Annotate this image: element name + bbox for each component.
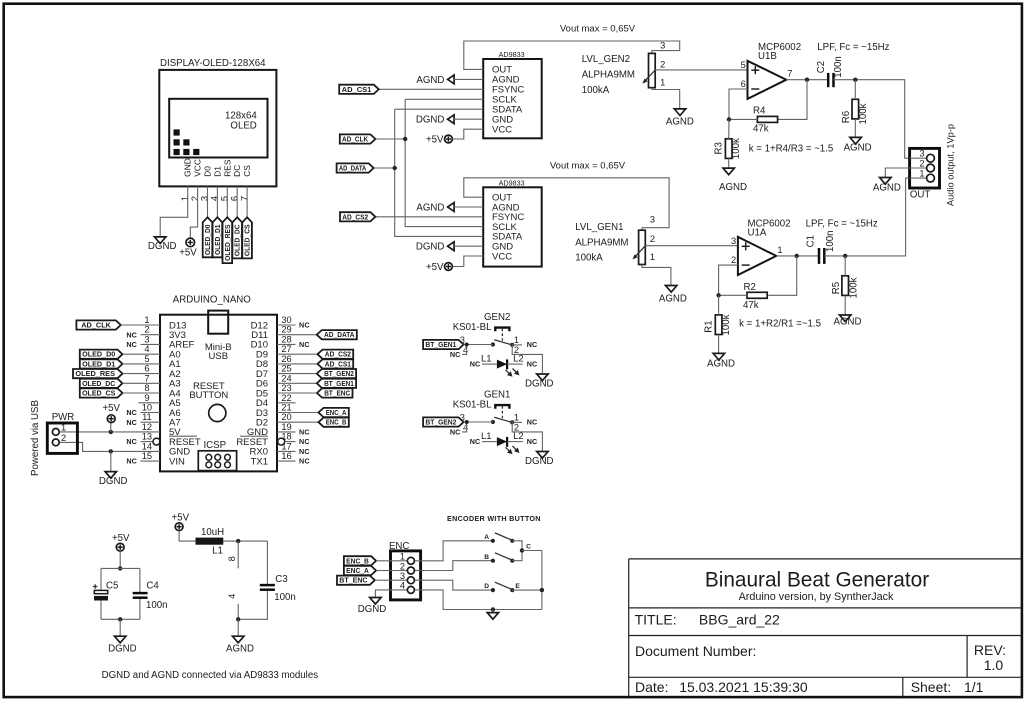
svg-text:2: 2: [400, 561, 405, 571]
svg-text:OUT: OUT: [910, 189, 931, 200]
wire cap bottom rail: [101, 617, 140, 621]
wire R4 left to node: [727, 117, 758, 121]
svg-text:AD_CS2: AD_CS2: [325, 350, 351, 359]
svg-text:ENC_B: ENC_B: [346, 556, 369, 565]
wire pot1 pin1 to AGND: [642, 265, 671, 286]
arduino pin13 NC with bubble: [126, 437, 160, 446]
wire ENC pin2 to switch B: [421, 561, 493, 571]
arduino left pin names: [169, 320, 201, 467]
svg-text:3: 3: [919, 149, 924, 159]
svg-text:U1B: U1B: [758, 51, 777, 62]
svg-text:LVL_GEN2: LVL_GEN2: [582, 54, 630, 65]
arduino pin18 NC with bubble: [278, 437, 310, 446]
svg-text:Powered via USB: Powered via USB: [30, 400, 41, 476]
arduino right pin numbers 30-16: [281, 315, 291, 461]
svg-text:R5: R5: [831, 282, 842, 294]
resistor R2 labels: [743, 282, 759, 311]
power +5V at AD2: [426, 262, 452, 273]
svg-text:PWR: PWR: [52, 412, 75, 423]
connector ENC outline: [391, 551, 421, 600]
svg-text:26: 26: [281, 354, 291, 364]
resistor R3 body: [725, 139, 732, 159]
svg-text:15.03.2021 15:39:30: 15.03.2021 15:39:30: [679, 679, 808, 695]
button GEN1 pin2 wire to DGND: [512, 422, 542, 451]
net flag AD_CS2 left: [340, 212, 375, 221]
wire node C to right rail: [522, 551, 542, 610]
svg-text:NC: NC: [527, 340, 538, 349]
svg-text:BT_GEN1: BT_GEN1: [425, 340, 456, 349]
net flag AD_DATA left: [337, 163, 374, 172]
title block Date row: [635, 679, 808, 695]
wire R2 left to node: [716, 293, 747, 297]
svg-text:BT_GEN2: BT_GEN2: [324, 369, 354, 378]
arduino pin3 NC: [126, 340, 160, 349]
wire display pin6: [236, 186, 238, 217]
svg-text:DGND and AGND connected via AD: DGND and AGND connected via AD9833 modul…: [102, 670, 319, 681]
arduino pin10 NC: [126, 408, 160, 417]
potentiometer LVL_GEN2 body: [649, 53, 656, 87]
svg-text:100n: 100n: [833, 56, 844, 78]
svg-text:1/1: 1/1: [964, 679, 984, 695]
arduino pin22 stub wire: [277, 402, 296, 404]
net flag AD_CLK left: [340, 134, 376, 143]
module U_AD1 name label: [499, 50, 525, 59]
svg-text:ENC_A: ENC_A: [346, 566, 369, 575]
net flag OLED_DC at arduino pin7: [80, 379, 160, 388]
ground DGND under PWR node: [99, 472, 128, 488]
connector OUT audio jack outline: [910, 148, 940, 188]
button GEN1 KS01-BL label: [453, 400, 492, 411]
net flag OLED_D0 at arduino pin4: [80, 350, 160, 359]
svg-text:ALPHA9MM: ALPHA9MM: [575, 238, 628, 249]
svg-text:100n: 100n: [146, 600, 168, 611]
svg-text:Sheet:: Sheet:: [911, 679, 951, 695]
wire C4 bottom leg: [139, 599, 141, 619]
ground at encoder common: [487, 613, 498, 620]
svg-text:TX1: TX1: [251, 456, 268, 467]
svg-text:AD_DATA: AD_DATA: [324, 330, 355, 339]
svg-text:1: 1: [61, 423, 66, 433]
svg-text:AGND: AGND: [873, 182, 901, 193]
svg-text:2: 2: [919, 158, 924, 168]
ground AGND at jack pin2: [873, 178, 901, 194]
net flag BT_GEN1: [423, 340, 493, 349]
label Audio output 1Vp-p: [946, 124, 956, 206]
svg-text:DGND: DGND: [525, 456, 554, 467]
svg-text:R2: R2: [744, 282, 756, 293]
wire display pin1 to DGND: [160, 186, 188, 237]
label ENCODER WITH BUTTON: [447, 514, 541, 523]
svg-text:Audio output, 1Vp-p: Audio output, 1Vp-p: [946, 124, 956, 206]
wire pot2 pin1 to AGND: [652, 88, 680, 109]
title block TITLE row: [635, 611, 780, 627]
net label OLED_D0: [203, 217, 213, 257]
net flag AD_DATA at arduino pin29: [277, 330, 357, 339]
svg-text:OLED_RES: OLED_RES: [223, 224, 232, 260]
wire C5 bottom leg: [100, 601, 102, 620]
svg-text:1: 1: [180, 196, 190, 201]
resistor R4 body: [757, 116, 777, 122]
svg-text:25: 25: [281, 364, 291, 374]
svg-text:OLED_DC: OLED_DC: [82, 379, 116, 388]
title block frame: [629, 559, 1021, 696]
svg-text:DGND: DGND: [416, 115, 445, 126]
resistor R6 body: [852, 99, 859, 119]
resistor R3 labels: [714, 138, 742, 159]
pot LVL_GEN1 wiper arrow: [632, 246, 645, 260]
ground AGND under pot2: [666, 109, 694, 127]
capacitor C4 labels: [146, 581, 168, 612]
wire AD_DATA net vertical to SDATA pins: [374, 109, 484, 236]
pot LVL_GEN1 pin2 number: [650, 234, 655, 244]
encoder switch A: [484, 533, 514, 543]
wire C5 top leg: [100, 568, 102, 590]
svg-text:1: 1: [919, 169, 924, 179]
op-amp U1B pin5 number: [741, 60, 746, 70]
inductor L1 body: [196, 538, 224, 545]
resistor R6 labels: [841, 103, 869, 124]
svg-text:ENC: ENC: [389, 541, 409, 552]
net label OLED_D1: [213, 217, 223, 257]
wire node to R5: [844, 256, 846, 276]
button GEN2 contacts and lever: [491, 340, 515, 347]
svg-text:16: 16: [281, 451, 291, 461]
wire pot2 wiper to opamp U1B pin5: [655, 69, 747, 71]
button GEN2 pin4 NC: [450, 350, 461, 359]
wire AD1 VCC to +5V: [452, 129, 483, 139]
svg-text:4: 4: [400, 581, 405, 591]
svg-text:10uH: 10uH: [201, 527, 224, 538]
svg-text:AGND: AGND: [666, 116, 694, 127]
capacitor C2 plates: [828, 73, 833, 87]
resistor R4 labels: [753, 106, 769, 135]
svg-text:+5V: +5V: [172, 512, 190, 523]
pot LVL_GEN1 pin3 number: [650, 215, 655, 225]
svg-text:5: 5: [220, 196, 230, 201]
svg-text:100k: 100k: [849, 277, 860, 298]
net flag AD_CS2 at arduino pin27: [277, 350, 353, 359]
wire AD1 FSYNC: [379, 88, 483, 90]
op-amp U1B labels: [758, 42, 801, 62]
svg-text:NC: NC: [126, 437, 137, 446]
svg-text:AGND: AGND: [416, 202, 444, 213]
wire cap top rail: [101, 567, 140, 569]
svg-text:LVL_GEN1: LVL_GEN1: [575, 222, 623, 233]
LED GEN2 pin labels: [481, 354, 524, 365]
pot LVL_GEN1 labels: [575, 222, 628, 263]
net flag OLED_D1 at arduino pin5: [80, 359, 160, 368]
svg-text:+5V: +5V: [179, 247, 197, 258]
svg-text:BT_ENC: BT_ENC: [324, 389, 351, 398]
button GEN2 pin2 wire to DGND: [512, 345, 542, 374]
label Vout max 1: [560, 24, 636, 35]
arduino left pin numbers 1-15: [142, 315, 152, 461]
resistor R1 body: [715, 315, 722, 335]
title block Sheet: [911, 679, 984, 695]
svg-text:R6: R6: [841, 111, 852, 123]
pot LVL_GEN2 labels: [582, 54, 635, 96]
svg-text:L1: L1: [212, 545, 223, 556]
wire C1 to audio jack pin1: [824, 178, 909, 258]
op-amp U1A pin2 number: [731, 255, 736, 265]
connector ENC pins 1-4: [391, 552, 421, 594]
svg-text:OLED_CS: OLED_CS: [243, 224, 252, 256]
net flag BT_ENC at ENC pin3: [337, 576, 391, 585]
net flag AD_CS1 left: [339, 85, 379, 94]
svg-text:BT_GEN1: BT_GEN1: [324, 379, 354, 388]
pot LVL_GEN2 wiper arrow: [642, 70, 655, 84]
label gain formula U1B: [749, 144, 834, 155]
svg-text:C2: C2: [816, 61, 827, 73]
svg-text:47k: 47k: [753, 124, 769, 135]
svg-text:1: 1: [777, 245, 782, 255]
ground DGND under display: [148, 237, 177, 252]
flag DGND at AD2: [416, 242, 483, 253]
capacitor C1 plates: [819, 248, 824, 264]
button GEN2 pin1 NC wire: [512, 340, 537, 349]
svg-text:100n: 100n: [274, 592, 296, 603]
svg-text:5: 5: [144, 354, 149, 364]
title block main title: [705, 568, 929, 591]
svg-text:5: 5: [741, 60, 746, 70]
encoder switch D E: [484, 582, 520, 592]
svg-text:VIN: VIN: [169, 456, 185, 467]
net flag OLED_RES at arduino pin6: [73, 369, 160, 378]
ground AGND under R5: [834, 315, 862, 327]
svg-text:8: 8: [144, 383, 149, 393]
svg-text:C5: C5: [106, 581, 118, 592]
ground AGND under C3: [226, 636, 254, 654]
svg-text:12: 12: [142, 422, 152, 432]
arduino pin15 NC: [126, 457, 160, 466]
ground DGND under GEN1: [525, 452, 554, 467]
net-tie pin 4 stub: [227, 594, 238, 620]
svg-text:1: 1: [514, 412, 519, 422]
flag AGND at AD1: [416, 75, 483, 86]
wire C3 top leg: [266, 541, 268, 584]
svg-text:DC: DC: [232, 165, 242, 177]
LED GEN2 NC labels: [470, 360, 538, 369]
svg-text:C4: C4: [146, 581, 159, 592]
capacitor C1 labels: [805, 230, 836, 252]
svg-text:NC: NC: [299, 437, 310, 446]
button GEN2 cap bracket: [495, 328, 509, 343]
svg-text:DISPLAY-OLED-128X64: DISPLAY-OLED-128X64: [160, 58, 266, 69]
button GEN2 pin numbers: [460, 335, 519, 355]
svg-text:BT_GEN2: BT_GEN2: [425, 418, 456, 427]
ground AGND under pot1: [659, 286, 687, 305]
svg-text:OLED_RES: OLED_RES: [75, 369, 115, 378]
potentiometer LVL_GEN1 body: [639, 230, 646, 264]
wire U1A pin2 feedback: [719, 265, 738, 295]
arduino pin16 NC: [277, 457, 310, 466]
net label OLED_DC: [232, 217, 242, 258]
resistor R2 body: [747, 292, 767, 298]
op-amp U1A labels: [748, 219, 791, 239]
svg-text:100k: 100k: [731, 138, 742, 159]
display pin name labels GND VCC D0 D1 RES DC CS: [183, 158, 252, 177]
capacitor C3 plates: [260, 585, 275, 590]
svg-text:C3: C3: [275, 574, 287, 585]
svg-text:R3: R3: [714, 142, 725, 154]
connector PWR outline: [47, 423, 77, 453]
wire jack pin2 to AGND: [885, 168, 909, 178]
svg-text:L1: L1: [481, 354, 492, 365]
module ARDUINO_NANO outline: [160, 315, 277, 472]
svg-text:9: 9: [144, 393, 149, 403]
wire C2 to audio jack pin3: [834, 78, 910, 159]
arduino pin19 NC: [277, 428, 310, 437]
svg-text:L2: L2: [513, 431, 524, 442]
svg-text:AD_CLK: AD_CLK: [81, 321, 111, 330]
svg-text:14: 14: [142, 441, 152, 451]
net flag ENC_A at arduino pin21: [277, 408, 349, 417]
wire pot1 wiper to opamp U1A pin3: [645, 245, 738, 247]
svg-text:Document Number:: Document Number:: [635, 643, 756, 659]
connector OUT pins 3 2 1: [910, 149, 935, 182]
ground AGND under R6: [844, 137, 872, 153]
net flag ENC_B at ENC pin1: [344, 556, 391, 565]
svg-text:BUTTON: BUTTON: [189, 390, 228, 401]
module U_AD2 name label: [499, 179, 525, 188]
button GEN1 pin1 NC wire: [512, 418, 537, 427]
arduino pin2 NC: [126, 330, 160, 339]
wire U1B pin6 feedback: [729, 89, 748, 119]
svg-text:k = 1+R2/R1 =~1.5: k = 1+R2/R1 =~1.5: [739, 318, 821, 329]
label gain formula U1A: [739, 318, 821, 329]
op-amp U1A pin1 number: [777, 245, 782, 255]
net flag BT_GEN2 at arduino pin25: [277, 369, 356, 378]
wire switch B to node C: [512, 548, 524, 560]
svg-text:2: 2: [660, 59, 665, 69]
svg-text:NC: NC: [299, 321, 310, 330]
svg-text:1: 1: [650, 252, 655, 262]
display pixel squares: [174, 129, 200, 155]
module ARDUINO_NANO title: [173, 295, 252, 306]
svg-text:7: 7: [144, 373, 149, 383]
svg-text:R1: R1: [703, 320, 714, 332]
svg-text:3: 3: [400, 571, 405, 581]
ground DGND at ENC: [358, 598, 387, 615]
svg-text:B: B: [484, 554, 489, 561]
arduino icsp label: [203, 440, 226, 451]
svg-text:E: E: [515, 583, 520, 590]
LED GEN2 backlight: [482, 359, 523, 369]
svg-text:D1: D1: [212, 166, 222, 177]
svg-text:NC: NC: [470, 437, 481, 446]
pot LVL_GEN1 pin1 number: [650, 252, 655, 262]
arduino pin9 stub wire: [138, 402, 160, 404]
wire AD2 FSYNC: [375, 216, 483, 218]
net flag AD_CLK at arduino pin1: [76, 320, 160, 329]
capacitor C2 labels: [816, 56, 844, 78]
svg-text:GND: GND: [183, 158, 193, 177]
op-amp U1B pin7 number: [787, 69, 792, 79]
svg-text:100kA: 100kA: [582, 85, 610, 96]
capacitor C5 label: [106, 581, 118, 592]
svg-text:100kA: 100kA: [575, 252, 603, 263]
label LPF U1B: [817, 42, 889, 53]
svg-text:D0: D0: [203, 166, 213, 177]
svg-text:REV:: REV:: [974, 642, 1006, 658]
svg-text:OLED_D1: OLED_D1: [82, 359, 115, 368]
display title label: [160, 58, 266, 69]
module U_AD1 AD9833 outline: [483, 59, 542, 138]
wire +5V to cap rail: [118, 551, 122, 571]
svg-text:3: 3: [144, 334, 149, 344]
svg-text:11: 11: [142, 412, 152, 422]
LED GEN1 emission arrows: [506, 446, 520, 454]
svg-text:2: 2: [190, 196, 200, 201]
svg-text:KS01-BL: KS01-BL: [453, 322, 492, 333]
title block REV: [974, 642, 1006, 673]
power +5V above PWR: [102, 403, 120, 422]
capacitor C5 polarized plates: [93, 584, 108, 600]
net flag BT_GEN2: [423, 417, 493, 426]
svg-text:2: 2: [144, 325, 149, 335]
svg-text:NC: NC: [527, 360, 538, 369]
svg-text:15: 15: [142, 451, 152, 461]
wire arduino GND pin14 to PWR pin2 and DGND: [59, 442, 160, 471]
svg-text:NC: NC: [450, 428, 461, 437]
svg-text:OLED_D1: OLED_D1: [213, 225, 222, 256]
svg-text:KS01-BL: KS01-BL: [453, 400, 492, 411]
svg-text:2: 2: [650, 234, 655, 244]
svg-text:RES: RES: [222, 159, 232, 177]
svg-text:U1A: U1A: [748, 228, 767, 239]
connector ENC label: [389, 541, 409, 552]
arduino right pin names: [236, 320, 268, 467]
wire display pin3: [207, 186, 209, 217]
display screen inner box: [169, 99, 267, 158]
op-amp U1B pin6 number: [741, 79, 746, 89]
LED GEN1 pin labels: [481, 431, 524, 442]
svg-text:2: 2: [61, 433, 66, 443]
svg-text:ENC_A: ENC_A: [326, 408, 347, 417]
svg-text:NC: NC: [299, 340, 310, 349]
capacitor C3 labels: [274, 574, 296, 603]
svg-text:6: 6: [229, 196, 239, 201]
svg-text:4: 4: [210, 196, 220, 201]
svg-text:D: D: [484, 583, 489, 590]
svg-text:AD_CLK: AD_CLK: [342, 135, 369, 144]
svg-text:L2: L2: [513, 354, 524, 365]
svg-text:AGND: AGND: [226, 644, 254, 655]
svg-text:L1: L1: [481, 431, 492, 442]
svg-text:AD9833: AD9833: [499, 179, 525, 188]
svg-text:AGND: AGND: [707, 358, 735, 369]
flag DGND at AD1: [416, 115, 483, 126]
svg-text:BBG_ard_22: BBG_ard_22: [699, 611, 780, 627]
LED GEN1 NC labels: [470, 437, 538, 446]
wire AD2 OUT to LVL_GEN1 pin3 (Vout rail 2): [464, 178, 669, 230]
svg-text:30: 30: [281, 315, 291, 325]
svg-text:ARDUINO_NANO: ARDUINO_NANO: [173, 295, 252, 306]
svg-text:NC: NC: [527, 418, 538, 427]
svg-text:20: 20: [281, 412, 291, 422]
wire U1B output to C2: [786, 78, 828, 82]
svg-text:AD_CS2: AD_CS2: [342, 212, 368, 221]
svg-text:C: C: [526, 543, 531, 550]
svg-text:CS: CS: [242, 165, 252, 177]
svg-text:29: 29: [281, 325, 291, 335]
svg-text:24: 24: [281, 373, 291, 383]
svg-text:18: 18: [281, 432, 291, 442]
wire R3 to AGND: [728, 158, 730, 168]
svg-text:C1: C1: [805, 235, 816, 247]
title block Document Number: [635, 643, 756, 659]
svg-text:28: 28: [281, 334, 291, 344]
